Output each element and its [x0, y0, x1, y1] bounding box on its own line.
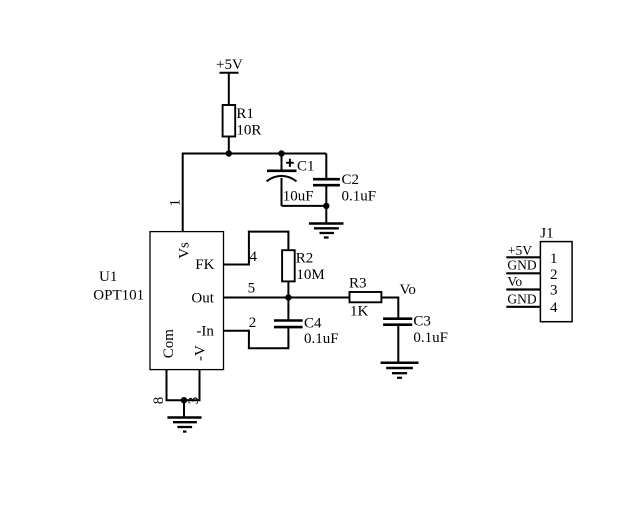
value 0.1uF — [342, 188, 377, 204]
wire bottom connect — [166, 399, 201, 401]
svg-text:0.1uF: 0.1uF — [304, 331, 339, 347]
wire top horizontal net — [183, 153, 327, 155]
connector J1 body — [540, 242, 572, 322]
value OPT101 — [93, 288, 144, 304]
wire J1 pin4 — [506, 306, 540, 308]
svg-text:GND: GND — [507, 292, 536, 307]
svg-text:Com: Com — [161, 329, 177, 359]
value 10uF — [283, 188, 314, 204]
label U1 — [99, 269, 117, 285]
pin number 4 — [250, 249, 258, 265]
svg-text:C3: C3 — [413, 313, 431, 329]
svg-text:4: 4 — [550, 300, 558, 316]
svg-text:C2: C2 — [342, 172, 360, 188]
label R2 — [296, 251, 314, 267]
power label +5V — [216, 57, 243, 73]
net label +5V — [508, 243, 532, 258]
svg-text:-In: -In — [196, 323, 214, 339]
wire R2 to out node — [287, 281, 289, 297]
capacitor C3 — [383, 319, 412, 363]
pin name Out — [191, 290, 214, 306]
pin name Com — [161, 329, 177, 359]
resistor R2 — [282, 250, 295, 281]
svg-text:+5V: +5V — [508, 243, 532, 258]
svg-text:R2: R2 — [296, 251, 314, 267]
wire R1 to node — [228, 137, 230, 154]
ground (C3 branch) — [381, 363, 419, 378]
wire +5V to R1 — [228, 73, 230, 105]
pin name FK — [195, 257, 214, 273]
svg-text:1: 1 — [168, 199, 184, 207]
label C2 — [342, 172, 360, 188]
svg-text:R1: R1 — [236, 106, 254, 122]
net label GND — [507, 258, 536, 273]
pin number 8 — [151, 397, 167, 405]
pin number 2 — [249, 315, 256, 331]
wire to ground U1 — [183, 400, 185, 417]
J1 pin number 4 — [550, 300, 558, 316]
value 0.1uF — [304, 331, 339, 347]
wire C1 bottom horizontal — [282, 205, 327, 207]
C1 plus sign — [286, 159, 294, 167]
svg-text:J1: J1 — [540, 226, 553, 242]
J1 pin number 2 — [550, 267, 558, 283]
net label Vo — [507, 274, 522, 289]
op-amp U1 body OPT101 — [150, 232, 224, 370]
wire pin8 stub — [166, 370, 168, 401]
svg-text:5: 5 — [248, 281, 256, 297]
svg-text:4: 4 — [250, 249, 258, 265]
svg-text:FK: FK — [195, 257, 214, 273]
value 0.1uF — [413, 330, 448, 346]
svg-text:U1: U1 — [99, 269, 117, 285]
junction R1/net — [226, 150, 232, 156]
wire pin3 stub — [199, 370, 201, 401]
svg-text:1K: 1K — [350, 303, 369, 319]
svg-text:C4: C4 — [304, 315, 322, 331]
pin name -V — [192, 345, 208, 361]
svg-text:2: 2 — [249, 315, 256, 331]
wire J1 pin1 — [506, 256, 540, 258]
svg-text:Out: Out — [191, 290, 214, 306]
capacitor C1 — [267, 154, 297, 206]
wire J1 pin3 — [506, 288, 540, 290]
label C3 — [413, 313, 431, 329]
wire FK loop — [224, 231, 289, 266]
svg-text:10M: 10M — [296, 267, 324, 283]
ground (U1) — [167, 418, 201, 432]
wire pin1 vertical — [182, 153, 184, 232]
node Vo label — [400, 282, 416, 298]
svg-text:Vo: Vo — [400, 282, 416, 298]
label C1 — [297, 158, 315, 174]
value 1K — [350, 303, 369, 319]
svg-text:Vs: Vs — [177, 242, 193, 259]
J1 pin number 1 — [550, 251, 558, 267]
power bar symbol — [220, 72, 239, 74]
junction C1/net — [278, 150, 284, 156]
resistor R1 — [223, 105, 236, 137]
capacitor C2 — [313, 154, 340, 224]
svg-text:0.1uF: 0.1uF — [342, 188, 377, 204]
svg-text:2: 2 — [550, 267, 558, 283]
wire R3 to Vo — [381, 297, 398, 299]
ground (C2 branch) — [309, 224, 344, 238]
junction C2/C1 bottom — [323, 203, 329, 209]
svg-text:OPT101: OPT101 — [93, 288, 144, 304]
svg-text:0.1uF: 0.1uF — [413, 330, 448, 346]
wire Out horizontal — [224, 297, 350, 299]
label C4 — [304, 315, 322, 331]
svg-text:3: 3 — [186, 397, 202, 405]
net label GND — [507, 292, 536, 307]
svg-text:GND: GND — [507, 258, 536, 273]
svg-text:C1: C1 — [297, 158, 315, 174]
svg-text:R3: R3 — [349, 276, 367, 292]
value 10M — [296, 267, 324, 283]
svg-text:1: 1 — [550, 251, 558, 267]
junction out node — [285, 294, 291, 300]
label R3 — [349, 276, 367, 292]
svg-text:10R: 10R — [236, 122, 261, 138]
connector J1 label — [540, 226, 553, 242]
svg-text:8: 8 — [151, 397, 167, 405]
J1 pin number 3 — [550, 283, 558, 299]
svg-text:10uF: 10uF — [283, 188, 314, 204]
wire -In loop — [224, 330, 290, 349]
junction bottom — [181, 397, 187, 403]
pin number 3 — [186, 397, 202, 405]
svg-text:3: 3 — [550, 283, 558, 299]
pin number 1 — [168, 199, 184, 207]
capacitor C4 — [274, 298, 303, 349]
label R1 — [236, 106, 254, 122]
resistor R3 — [350, 292, 382, 302]
pin name Vs — [177, 242, 193, 259]
pin name -In — [196, 323, 214, 339]
svg-text:Vo: Vo — [507, 274, 522, 289]
wire J1 pin2 — [506, 272, 540, 274]
pin number 5 — [248, 281, 256, 297]
svg-text:-V: -V — [192, 345, 208, 361]
value 10R — [236, 122, 261, 138]
wire Vo down to C3 — [397, 297, 399, 319]
svg-text:+5V: +5V — [216, 57, 243, 73]
